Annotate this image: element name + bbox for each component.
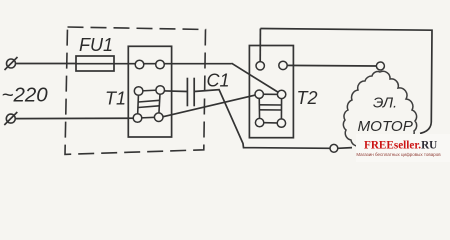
T1 linkage ladder xyxy=(138,90,161,118)
terminal X1 (top input, slashed circle) xyxy=(5,57,18,70)
svg-text:T1: T1 xyxy=(105,89,126,109)
svg-text:T2: T2 xyxy=(297,88,318,108)
motor M1 scalloped winding cloud xyxy=(343,71,416,152)
svg-text:ЭЛ.: ЭЛ. xyxy=(373,95,397,112)
motor bottom-left terminal node xyxy=(330,144,338,152)
fuse FU1 xyxy=(76,56,114,71)
wire: top bus to motor bottom-right (down right side, curves behind logo) xyxy=(260,29,432,134)
terminal X2 (bottom input, slashed circle) xyxy=(4,112,17,125)
watermark panel xyxy=(356,134,450,162)
switch T1 block xyxy=(128,46,171,137)
wire: T2 top-left contact up to top bus xyxy=(259,29,261,62)
T2 contact circles xyxy=(255,61,287,127)
capacitor C1 xyxy=(187,78,194,107)
motor top terminal node xyxy=(376,62,384,70)
svg-text:FREEseller.RU: FREEseller.RU xyxy=(364,140,437,152)
T2 linkage ladder xyxy=(259,94,281,123)
svg-text:C1: C1 xyxy=(207,71,230,91)
paper background xyxy=(0,0,450,175)
wire: top input to fuse xyxy=(16,63,77,65)
wire: capacitor to motor bottom-left terminal (bend path) xyxy=(194,90,330,149)
T1 contact circles xyxy=(133,60,164,122)
dashed enclosure box xyxy=(65,27,206,154)
wire: diagonal T1 top wire bend to T2 middle-right contact xyxy=(232,63,282,94)
wire: stub from bottom-left terminal into winding xyxy=(338,147,352,150)
wire: T1 middle-right contact to capacitor C1 xyxy=(161,90,187,93)
svg-text:~220: ~220 xyxy=(2,84,49,107)
svg-text:FU1: FU1 xyxy=(79,35,113,55)
svg-text:МОТОР: МОТОР xyxy=(358,118,414,135)
wire: through fuse to T1 top row and on to bend xyxy=(76,63,232,65)
wire: T2 top-right contact to motor top terminal xyxy=(283,64,376,67)
wire: bottom input to T1 bottom-left contact xyxy=(15,117,134,119)
wire: diagonal T1 bottom-right contact to T2 middle-left contact xyxy=(160,94,259,117)
svg-text:Магазин бесплатных цифровых то: Магазин бесплатных цифровых товаров xyxy=(356,152,441,157)
switch T2 block xyxy=(249,46,293,138)
